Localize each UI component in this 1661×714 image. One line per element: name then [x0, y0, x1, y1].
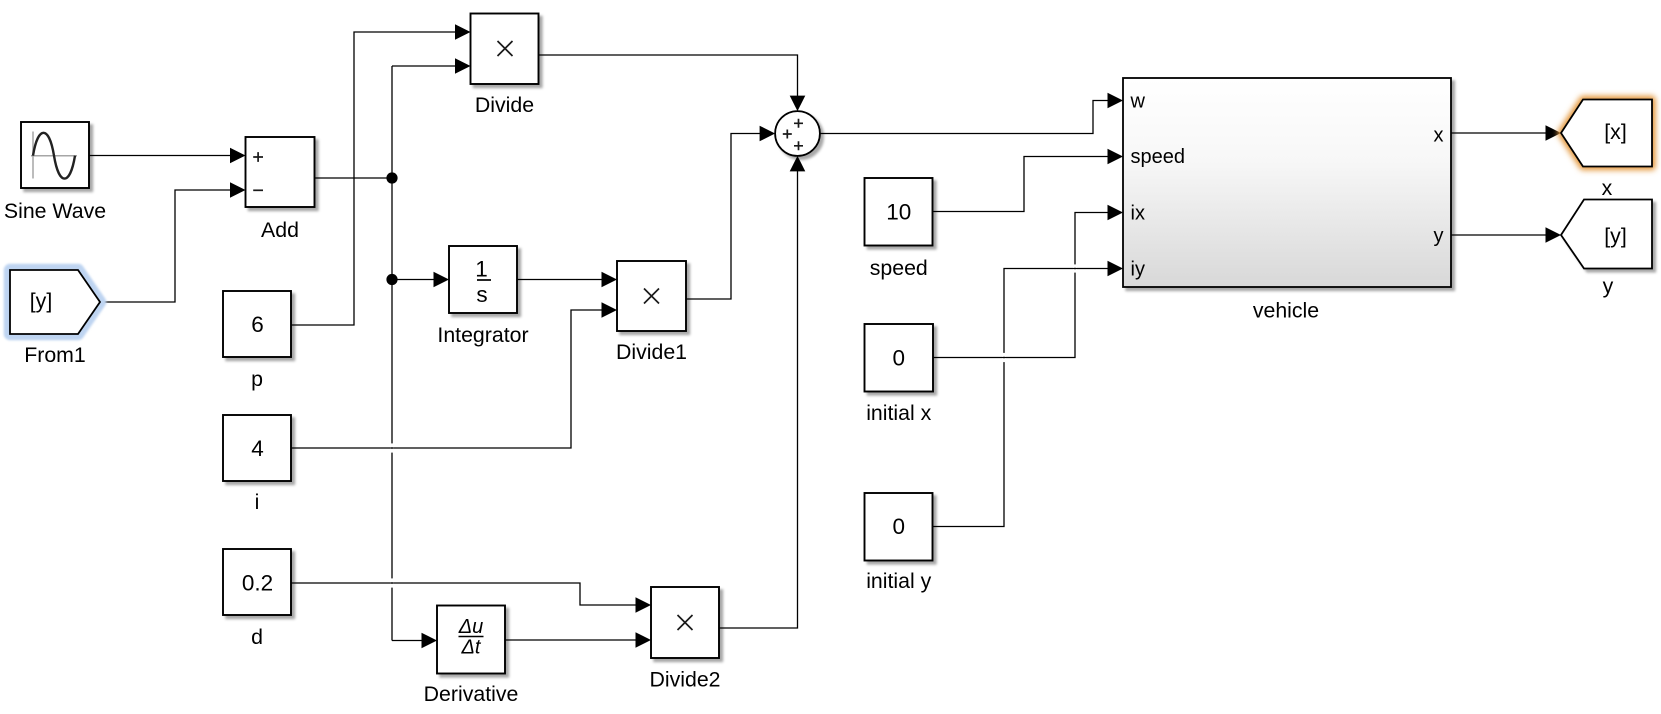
- Sine Wave icon curve: [33, 133, 75, 179]
- svg-text:initial x: initial x: [866, 401, 931, 425]
- svg-text:speed: speed: [1131, 146, 1186, 168]
- svg-text:From1: From1: [24, 343, 86, 367]
- block constant speed value 10: [865, 178, 933, 246]
- svg-text:6: 6: [251, 312, 264, 337]
- svg-text:s: s: [476, 282, 487, 307]
- svg-text:x: x: [1434, 125, 1444, 147]
- block Divide2: [651, 587, 719, 658]
- wire initial x constant to vehicle ix input: [933, 213, 1110, 358]
- wire Divide1 output to Sum left input: [687, 134, 762, 300]
- arrowhead into goto x tag: [1546, 125, 1562, 141]
- block constant p value 6: [223, 291, 291, 357]
- arrowhead into goto y tag: [1546, 227, 1562, 243]
- fraction bar: [477, 279, 491, 281]
- wire vehicle y output to goto y tag: [1451, 234, 1548, 236]
- arrowhead into Add plus input: [230, 148, 246, 164]
- wire Add output to trunk node: [315, 177, 393, 179]
- junction dot at Integrator branch: [386, 274, 397, 285]
- arrowhead into Divide2 input 1: [636, 597, 652, 613]
- wire Sine Wave to Add plus input: [89, 155, 232, 157]
- svg-text:d: d: [251, 625, 263, 649]
- svg-text:[y]: [y]: [30, 289, 52, 313]
- arrowhead into Integrator input: [434, 272, 450, 288]
- svg-text:Divide2: Divide2: [649, 668, 720, 692]
- arrowhead into Sum bottom: [790, 156, 806, 172]
- wire Divide2 output to Sum bottom input: [720, 170, 798, 629]
- junction dot at Add output branch: [386, 172, 397, 183]
- wire initial y constant to vehicle iy input: [933, 269, 1110, 527]
- block Derivative: [437, 606, 505, 674]
- svg-text:iy: iy: [1131, 259, 1145, 281]
- wire speed constant to vehicle speed input: [933, 157, 1110, 212]
- wire trunk vertical error signal: [391, 66, 393, 641]
- arrowhead into vehicle iy: [1108, 261, 1124, 277]
- block Divide1: [617, 261, 686, 331]
- from tag From1: [10, 270, 100, 334]
- wire Sum output to vehicle w input: [820, 101, 1110, 134]
- svg-text:Divide: Divide: [475, 93, 534, 117]
- wire trunk to Integrator input: [392, 279, 436, 281]
- minus sign in Add: [253, 189, 263, 191]
- wire d constant to Divide2 input 1: [291, 583, 638, 605]
- svg-text:0: 0: [892, 346, 905, 371]
- svg-text:y: y: [1603, 274, 1614, 298]
- goto tag x: [1561, 100, 1652, 167]
- svg-text:i: i: [255, 490, 260, 514]
- arrowhead into Divide input 1: [455, 24, 471, 40]
- svg-text:Derivative: Derivative: [424, 682, 519, 706]
- wire Integrator output to Divide1 input 1: [517, 279, 604, 281]
- svg-text:0.2: 0.2: [242, 571, 273, 596]
- svg-text:vehicle: vehicle: [1253, 299, 1319, 323]
- goto tag y: [1561, 200, 1652, 269]
- svg-text:4: 4: [251, 436, 264, 461]
- plus sign sum top port: [794, 119, 803, 128]
- wire trunk to Derivative input: [392, 640, 424, 642]
- fraction bar derivative: [459, 636, 484, 638]
- arrowhead into Divide input 2: [455, 58, 471, 74]
- svg-text:Sine Wave: Sine Wave: [4, 199, 106, 223]
- block constant initial x value 0: [865, 324, 934, 392]
- wire trunk to Divide input 2: [392, 65, 457, 67]
- svg-text:x: x: [1602, 176, 1613, 200]
- arrowhead into Derivative input: [422, 633, 438, 649]
- arrowhead into vehicle speed: [1108, 149, 1124, 165]
- sum block circle: [775, 111, 820, 156]
- goto tag x orange glow: [1561, 100, 1652, 167]
- wire i constant to Divide1 input 2: [291, 310, 604, 448]
- times sign in Divide1: [644, 289, 659, 304]
- from tag From1 blue glow: [10, 270, 100, 334]
- times sign in Divide: [498, 41, 513, 56]
- wire Divide output to Sum top input: [539, 55, 798, 98]
- arrowhead into Add minus input: [230, 182, 246, 198]
- svg-text:Δt: Δt: [461, 637, 482, 659]
- wire crossing gap: d wire over trunk: [390, 578, 394, 582]
- wire crossing gap: initial x wire over initial y vertical: [1002, 353, 1006, 357]
- wire From1 to Add minus input: [100, 190, 232, 302]
- svg-text:[x]: [x]: [1604, 120, 1626, 144]
- svg-text:Divide1: Divide1: [616, 340, 687, 364]
- block Add: [246, 137, 315, 207]
- arrowhead into Divide1 input 2: [602, 302, 618, 318]
- svg-text:[y]: [y]: [1604, 224, 1626, 248]
- svg-text:0: 0: [892, 514, 905, 539]
- svg-text:w: w: [1130, 91, 1146, 113]
- svg-text:1: 1: [475, 257, 488, 282]
- Sine Wave icon axes: [31, 132, 77, 179]
- block constant d value 0.2: [223, 549, 291, 615]
- svg-text:y: y: [1434, 225, 1444, 247]
- plus sign sum left port: [783, 130, 792, 139]
- block Sine Wave: [21, 122, 89, 188]
- block constant i value 4: [223, 415, 291, 481]
- block constant initial y value 0: [865, 493, 933, 561]
- svg-text:10: 10: [886, 200, 911, 225]
- wire Derivative output to Divide2 input 2: [506, 639, 638, 641]
- wire vehicle x output to goto x tag: [1451, 132, 1548, 134]
- subsystem block vehicle: [1123, 78, 1451, 287]
- svg-text:Integrator: Integrator: [437, 323, 528, 347]
- arrowhead into Divide1 input 1: [602, 272, 618, 288]
- times sign in Divide2: [678, 615, 693, 630]
- wire crossing gap: i wire over trunk: [390, 443, 394, 447]
- arrowhead into Sum top: [790, 96, 806, 112]
- svg-text:initial y: initial y: [866, 569, 931, 593]
- block Integrator: [449, 246, 517, 313]
- plus sign in Add: [253, 152, 263, 162]
- arrowhead into vehicle ix: [1108, 205, 1124, 221]
- svg-text:Add: Add: [261, 218, 299, 242]
- wire crossing gap: iy wire over initial x vertical: [1073, 264, 1077, 267]
- plus sign sum bottom port: [794, 141, 803, 150]
- arrowhead into Sum left: [760, 126, 776, 142]
- svg-text:ix: ix: [1131, 203, 1145, 225]
- svg-text:p: p: [251, 367, 263, 391]
- arrowhead into vehicle w: [1108, 93, 1124, 109]
- svg-text:speed: speed: [870, 256, 928, 280]
- block Divide: [471, 14, 539, 85]
- arrowhead into Divide2 input 2: [636, 632, 652, 648]
- svg-text:Δu: Δu: [458, 616, 484, 638]
- wire p constant to Divide input 1: [291, 32, 457, 325]
